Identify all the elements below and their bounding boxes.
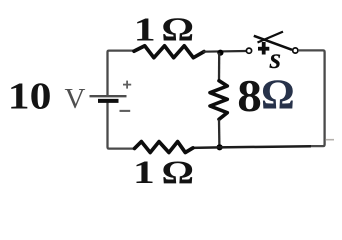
- svg-text:Ω: Ω: [162, 154, 195, 191]
- switch S motion stroke: [258, 32, 284, 43]
- wire: bottom segment junction to resistor: [192, 146, 220, 149]
- wire: stray nub right of bottom-right corner: [326, 139, 335, 141]
- battery V1 long thin positive plate: [90, 95, 127, 97]
- svg-text:Ω: Ω: [261, 73, 295, 119]
- wire: middle branch upper lead: [218, 53, 220, 81]
- wire: left vertical branch (below battery) and bottom-left corner: [108, 102, 135, 149]
- wire: bottom right segment: [219, 146, 311, 147]
- junction node dot top: [217, 50, 223, 56]
- switch S blade (open, from right terminal up-left): [254, 36, 292, 50]
- wire: middle branch lower lead: [218, 119, 221, 147]
- resistor 1ohm bottom zigzag: [135, 142, 194, 153]
- svg-text:10: 10: [8, 75, 52, 117]
- svg-text:V: V: [65, 83, 86, 115]
- svg-text:Ω: Ω: [161, 12, 194, 49]
- svg-text:1: 1: [134, 10, 156, 48]
- battery V1 short thick negative plate: [98, 99, 119, 103]
- battery minus sign: [120, 110, 131, 112]
- wire: switch to top-right corner and right vertical branch: [298, 50, 324, 146]
- battery plus sign: [123, 81, 131, 89]
- svg-text:1: 1: [133, 155, 155, 191]
- resistor 1ohm top zigzag: [134, 46, 204, 58]
- wire: left vertical branch (top segment above battery): [108, 51, 135, 96]
- junction node dot bottom: [217, 144, 223, 150]
- resistor 8ohm vertical zigzag: [210, 81, 227, 120]
- switch S right terminal circle: [293, 48, 298, 53]
- switch S left terminal circle: [246, 48, 251, 53]
- switch S closing arrow (dagger): [258, 42, 269, 55]
- svg-text:s: s: [269, 42, 282, 75]
- svg-text:8: 8: [237, 71, 262, 121]
- wire: top, resistor to junction and switch: [203, 50, 246, 53]
